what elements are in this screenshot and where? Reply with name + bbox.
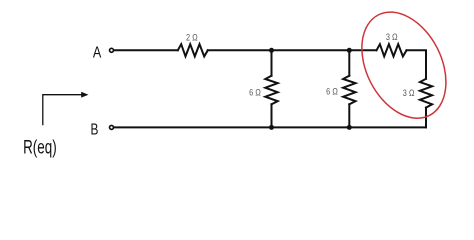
- wire bottom: [114, 126, 426, 128]
- resistor R3 3ohm vertical: [420, 79, 432, 108]
- resistor R2 3ohm horizontal: [377, 44, 407, 56]
- resistor R5 6ohm vertical: [343, 76, 355, 105]
- node junction top 2: [347, 48, 352, 53]
- svg-text:2 Ω: 2 Ω: [186, 33, 198, 43]
- node junction bottom 1: [269, 125, 274, 130]
- wire top resistor R1 to corner: [208, 49, 377, 51]
- terminal B circle: [110, 125, 114, 129]
- node junction top 1: [269, 48, 274, 53]
- svg-text:3 Ω: 3 Ω: [403, 88, 415, 98]
- wire 6ohm branch 1 bottom: [271, 104, 273, 127]
- terminal A circle: [110, 48, 114, 52]
- wire top A to resistor R1: [114, 49, 178, 51]
- resistor R4 6ohm vertical: [265, 76, 277, 105]
- resistor R1 2ohm: [178, 44, 208, 56]
- arrow R(eq) pointer: [43, 95, 82, 126]
- svg-text:R(eq): R(eq): [23, 137, 57, 158]
- svg-text:B: B: [91, 121, 99, 138]
- wire top right corner: [407, 50, 427, 79]
- svg-text:3 Ω: 3 Ω: [386, 32, 398, 42]
- wire 6ohm branch 2 bottom: [348, 104, 350, 127]
- svg-text:6 Ω: 6 Ω: [249, 87, 261, 97]
- wire 6ohm branch 1 top: [271, 50, 273, 75]
- wire 6ohm branch 2 top: [348, 50, 350, 75]
- node junction bottom 2: [347, 125, 352, 130]
- svg-text:A: A: [93, 45, 102, 62]
- wire right vertical to bottom: [425, 108, 427, 128]
- svg-text:6 Ω: 6 Ω: [326, 87, 338, 97]
- highlight ellipse red: [345, 0, 463, 132]
